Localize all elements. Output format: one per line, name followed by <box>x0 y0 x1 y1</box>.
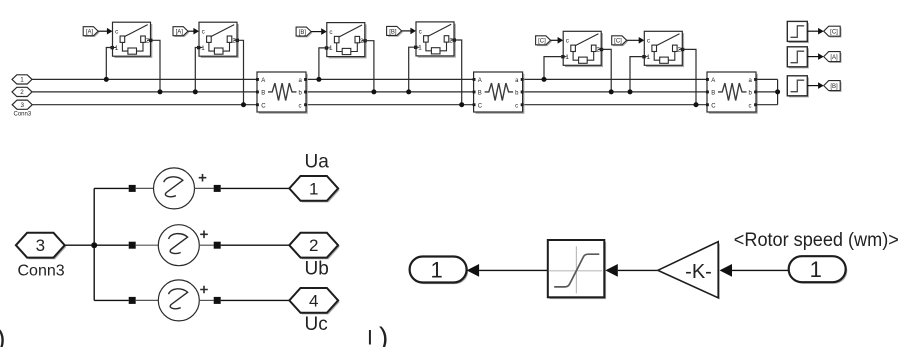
wire CB5 terminal2 to phase b <box>601 49 611 92</box>
svg-text:3: 3 <box>36 236 45 255</box>
wire phase C segment 1 <box>32 104 257 106</box>
wire input port to gain <box>732 269 789 271</box>
wire Z3 output b <box>756 91 778 93</box>
wire phase A segment 1 <box>32 78 257 80</box>
wire gain to saturation <box>618 269 658 271</box>
wire CB3 terminal1 to phase a <box>319 48 327 80</box>
plus sign source Uc <box>200 286 208 294</box>
svg-text:2: 2 <box>309 236 318 255</box>
from tag [C] no.2 <box>612 36 628 46</box>
wire shorting bus abc <box>777 79 779 104</box>
port square source Ub left <box>129 242 136 249</box>
wire Z3 output c <box>756 104 778 106</box>
from tag [B] no.2 <box>387 26 403 36</box>
arrowhead into CB1 c <box>107 28 113 35</box>
svg-text:Conn3: Conn3 <box>14 112 32 118</box>
step source Step2 <box>787 47 809 69</box>
breaker CB5 <box>561 31 603 67</box>
wire phase c segment 2 <box>306 104 474 106</box>
svg-text:[B]: [B] <box>299 30 307 36</box>
from tag [A] no.1 <box>83 27 99 37</box>
three-phase series RLC branch Z3 <box>706 72 758 114</box>
wire phase c segment 3 <box>523 104 707 106</box>
AC voltage source Ub <box>158 225 199 266</box>
port Conn3 (bottom left hexagon 3) <box>16 233 66 259</box>
wire phase a segment 2 <box>306 78 474 80</box>
arrowhead into goto C <box>818 28 824 35</box>
wire stub into source Ub <box>136 244 159 246</box>
svg-text:Ub: Ub <box>305 258 329 279</box>
wire phase a segment 3 <box>523 78 707 80</box>
wire CB5 terminal1 to phase a <box>544 57 563 80</box>
arrowhead into CB2 c <box>193 28 199 35</box>
plus sign source Ua <box>199 174 207 182</box>
port square source Ua left <box>129 185 136 192</box>
junction branch node <box>91 242 97 248</box>
svg-text:-K-: -K- <box>685 261 712 283</box>
wire bus to source Ub <box>94 244 129 246</box>
port 1 hexagon <box>289 176 339 202</box>
breaker CB4 <box>414 22 456 58</box>
wire Step1 to goto C <box>807 30 822 32</box>
goto tag [A] <box>824 52 842 63</box>
svg-text:): ) <box>0 324 6 347</box>
arrowhead into gain <box>720 264 733 277</box>
svg-text:[A]: [A] <box>830 55 838 61</box>
wire Z3 output a <box>756 78 778 80</box>
port square source Ua right <box>214 185 221 192</box>
wire Step2 to goto A <box>807 56 822 58</box>
wire Conn3 to branch node <box>65 244 95 246</box>
wire bus to source Uc <box>94 299 129 301</box>
wire CB1 terminal2 to phase B <box>151 40 161 92</box>
wire phase b segment 2 <box>306 91 474 93</box>
port 2 hexagon <box>289 233 339 259</box>
svg-text:[C]: [C] <box>538 39 546 45</box>
arrowhead into CB6 c <box>639 37 645 44</box>
three-phase series RLC branch Z1 <box>256 72 308 114</box>
wire phase b segment 3 <box>523 91 707 93</box>
svg-text:[B]: [B] <box>830 84 838 90</box>
svg-text:1: 1 <box>20 77 24 84</box>
wire CB2 terminal2 to phase C <box>237 40 244 104</box>
input port 1 (rotor speed in) <box>789 256 848 284</box>
breaker CB1 <box>111 22 153 58</box>
goto tag [C] <box>824 26 842 37</box>
wire CB4 terminal2 to phase c <box>454 40 462 105</box>
port Conn2 (top left, pad 2) <box>12 87 32 96</box>
goto tag [B] <box>824 81 842 92</box>
junction CB3-b <box>371 89 376 94</box>
wire stub out of source Ua <box>195 187 214 189</box>
saturation block <box>548 240 606 299</box>
gain block -K- <box>658 242 720 300</box>
wire tag B2 to CB4 control <box>402 30 415 32</box>
junction CB4-b <box>406 89 411 94</box>
wire tag C1 to CB5 control <box>551 39 562 41</box>
arrowhead into CB3 c <box>321 28 327 35</box>
junction CB4-c <box>459 102 464 107</box>
port Conn3 (top left, pad 3) <box>12 100 32 109</box>
svg-text:[B]: [B] <box>389 29 397 35</box>
svg-text:4: 4 <box>309 291 318 310</box>
from tag [A] no.2 <box>173 27 189 37</box>
wire CB6 terminal1 to phase b <box>630 57 644 92</box>
breaker CB6 <box>642 31 684 67</box>
wire tag B1 to CB3 control <box>311 31 325 33</box>
arrowhead into saturation <box>605 264 618 277</box>
plus sign source Ub <box>200 231 208 239</box>
arrowhead into CB5 c <box>558 37 564 44</box>
junction CB3-a <box>316 77 321 82</box>
junction CB2-C <box>241 102 246 107</box>
wire branch vertical bus <box>93 188 95 300</box>
svg-text:1: 1 <box>309 179 318 198</box>
AC voltage source Ua <box>154 168 195 209</box>
svg-text:3: 3 <box>20 102 24 109</box>
wire bus to source Ua <box>94 187 129 189</box>
junction CB5-a <box>542 77 547 82</box>
wire tag A2 to CB2 control <box>188 30 198 32</box>
wire source Uc to port 4 <box>221 299 290 301</box>
wire CB1 terminal1 to phase A <box>106 48 112 80</box>
svg-text:[A]: [A] <box>86 30 94 36</box>
wire stub into source Uc <box>136 299 159 301</box>
breaker CB3 <box>325 23 367 59</box>
junction CB5-b <box>609 89 614 94</box>
three-phase series RLC branch Z2 <box>473 72 525 114</box>
port square source Uc left <box>129 297 136 304</box>
port square source Uc right <box>214 297 221 304</box>
svg-text:[A]: [A] <box>176 30 184 36</box>
wire phase B segment 1 <box>32 91 257 93</box>
from tag [C] no.1 <box>536 36 552 46</box>
arrowhead into goto B <box>818 82 824 89</box>
wire source Ub to port 2 <box>221 244 290 246</box>
from tag [B] no.1 <box>296 27 312 37</box>
breaker CB2 <box>197 22 239 58</box>
wire CB3 terminal2 to phase b <box>365 41 374 92</box>
port square source Ub right <box>214 242 221 249</box>
port Conn1 (top left, pad 1) <box>12 75 32 84</box>
junction CB2-B <box>193 89 198 94</box>
svg-text:2: 2 <box>20 89 24 96</box>
step source Step1 <box>787 21 809 43</box>
arrowhead into CB4 c <box>410 28 416 35</box>
junction CB1-B <box>158 89 163 94</box>
svg-text:Ua: Ua <box>305 152 330 173</box>
junction CB1-A <box>104 77 109 82</box>
svg-text:1: 1 <box>430 257 442 282</box>
wire saturation to output port <box>479 269 548 271</box>
wire stub out of source Uc <box>199 299 213 301</box>
svg-text:): ) <box>379 322 388 347</box>
junction abc short <box>775 89 780 94</box>
wire stub into source Ua <box>136 187 154 189</box>
svg-text:I: I <box>367 327 373 347</box>
AC voltage source Uc <box>158 280 199 321</box>
svg-text:<Rotor speed (wm)>: <Rotor speed (wm)> <box>734 230 899 251</box>
svg-text:[C]: [C] <box>614 39 622 45</box>
wire tag A1 to CB1 control <box>98 30 111 32</box>
svg-text:1: 1 <box>810 257 822 282</box>
svg-text:[C]: [C] <box>830 30 838 36</box>
wire stub out of source Ub <box>199 244 213 246</box>
wire CB4 terminal1 to phase b <box>409 47 416 92</box>
svg-text:Uc: Uc <box>305 314 328 335</box>
step source Step3 <box>787 76 809 98</box>
junction CB6-b <box>628 89 633 94</box>
arrowhead into goto A <box>818 53 824 60</box>
svg-text:Conn3: Conn3 <box>18 263 65 280</box>
wire Step3 to goto B <box>807 85 822 87</box>
wire CB2 terminal1 to phase B <box>195 48 199 92</box>
junction CB6-c <box>694 102 699 107</box>
wire source Ua to port 1 <box>221 187 290 189</box>
wire tag C2 to CB6 control <box>627 39 643 41</box>
output port 1 (rotor speed out) <box>410 257 469 285</box>
wire CB6 terminal2 to phase c <box>682 49 696 104</box>
port 4 hexagon <box>289 288 339 314</box>
arrowhead into output port 1 <box>467 264 480 277</box>
